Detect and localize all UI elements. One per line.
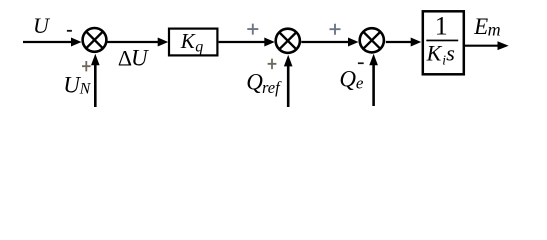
svg-text:U: U bbox=[63, 72, 81, 97]
svg-text:K: K bbox=[426, 40, 443, 65]
svg-text:e: e bbox=[356, 74, 364, 93]
svg-text:U: U bbox=[33, 13, 51, 38]
svg-text:ref: ref bbox=[262, 78, 282, 97]
svg-text:U: U bbox=[131, 46, 149, 71]
svg-text:Δ: Δ bbox=[118, 46, 132, 71]
svg-text:E: E bbox=[473, 14, 488, 39]
svg-text:q: q bbox=[195, 39, 203, 56]
svg-text:N: N bbox=[79, 80, 92, 97]
svg-text:Q: Q bbox=[246, 69, 263, 94]
svg-text:Q: Q bbox=[339, 67, 356, 92]
svg-text:K: K bbox=[180, 29, 196, 53]
svg-text:m: m bbox=[488, 19, 501, 39]
svg-text:1: 1 bbox=[435, 11, 448, 40]
svg-text:s: s bbox=[446, 40, 455, 65]
